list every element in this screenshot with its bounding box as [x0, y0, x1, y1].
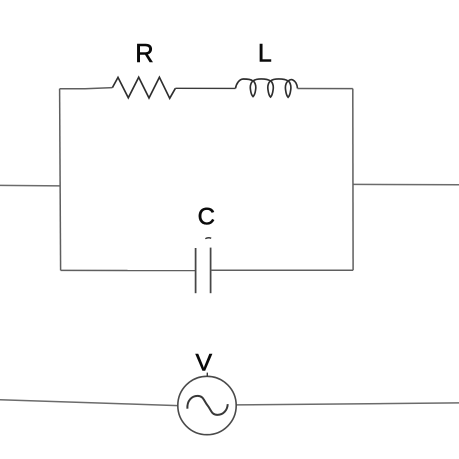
svg-text:V: V [196, 349, 213, 376]
sine wave inside source [187, 396, 227, 415]
wire: capacitor to bottom-right of loop [211, 269, 354, 271]
wire: left vertical side of loop [60, 89, 61, 271]
wire: between resistor and inductor [175, 87, 235, 89]
capacitor C right plate [210, 248, 212, 294]
wire: left lead into parallel block [0, 184, 60, 187]
tick at top of source circle [206, 373, 208, 377]
wire: top-left horizontal to resistor [60, 88, 113, 89]
wire: right lead out of parallel block [353, 183, 459, 185]
source V circle [178, 376, 236, 434]
wire: bottom-left of loop to capacitor [61, 269, 196, 271]
stray dash below label C [205, 237, 211, 240]
wire: right vertical side of loop [352, 89, 354, 271]
inductor L [236, 79, 298, 97]
resistor R [112, 77, 175, 98]
wire: inductor to top-right corner [298, 88, 353, 90]
capacitor C left plate [195, 248, 197, 293]
svg-text:L: L [258, 39, 272, 67]
svg-text:R: R [135, 40, 153, 68]
svg-text:C: C [198, 204, 215, 231]
wire: bottom rail left of source [0, 400, 178, 406]
wire: bottom rail right of source [236, 403, 459, 405]
